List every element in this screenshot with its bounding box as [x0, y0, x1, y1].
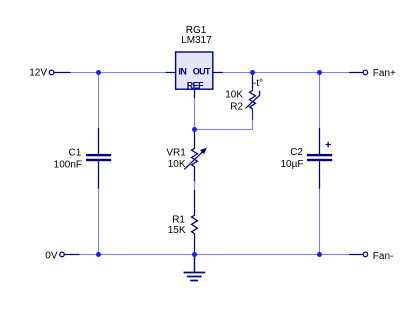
wire: C1 branch vertical bottom [98, 188, 100, 255]
wire: C2 branch vertical bottom [319, 188, 321, 255]
terminal Fan+ [349, 68, 396, 79]
svg-text:R2: R2 [230, 101, 243, 112]
terminal Fan- [349, 251, 393, 262]
svg-text:15K: 15K [168, 225, 186, 236]
ground [184, 255, 206, 281]
regulator RG1 LM317 [166, 25, 223, 98]
node: junction R1 bottom/ground [192, 252, 197, 257]
svg-text:LM317: LM317 [181, 35, 212, 46]
wire: R2 bottom corner to REF node [195, 120, 253, 130]
svg-text:VR1: VR1 [166, 148, 186, 159]
node: junction 12V/C1 top [96, 70, 101, 75]
wire: top rail light segment 12V to IN pin [70, 72, 166, 74]
svg-text:10K: 10K [225, 90, 243, 101]
svg-text:C1: C1 [69, 147, 82, 158]
svg-text:-t°: -t° [253, 78, 263, 89]
svg-text:Fan-: Fan- [373, 251, 394, 262]
terminal 12V [29, 68, 70, 79]
node: junction OUT/R2 top [250, 70, 255, 75]
svg-text:C2: C2 [290, 147, 303, 158]
capacitor C2 10uF (polarised) [281, 128, 333, 189]
node: junction C2 bottom [317, 252, 322, 257]
svg-text:10µF: 10µF [281, 159, 304, 170]
potentiometer VR1 10K [166, 130, 206, 182]
svg-text:IN: IN [179, 66, 187, 76]
wire: VR1 bottom to R1 top [194, 181, 196, 191]
svg-text:12V: 12V [29, 68, 47, 79]
svg-text:OUT: OUT [193, 66, 211, 76]
svg-text:100nF: 100nF [54, 160, 82, 171]
wire: top rail light segment OUT pin to Fan+ stub [223, 72, 350, 74]
svg-text:Fan+: Fan+ [373, 68, 396, 79]
terminal 0V [45, 251, 79, 262]
wire: C2 branch vertical top [319, 73, 321, 130]
svg-text:0V: 0V [45, 251, 58, 262]
capacitor C1 100nF [54, 128, 112, 189]
node: junction REF/VR1/R2 [192, 127, 197, 132]
node: junction C2 top [317, 70, 322, 75]
svg-text:R1: R1 [172, 215, 185, 226]
wire: C1 branch vertical top [98, 73, 100, 130]
wire: bottom rail light segment [79, 254, 349, 256]
svg-text:10K: 10K [168, 159, 186, 170]
node: junction 0V/C1 bottom [96, 252, 101, 257]
thermistor R2 10K [225, 73, 263, 121]
svg-text:REF: REF [187, 80, 204, 90]
wire: centre column REF to VR1 node [194, 98, 196, 130]
resistor R1 15K [168, 190, 198, 255]
